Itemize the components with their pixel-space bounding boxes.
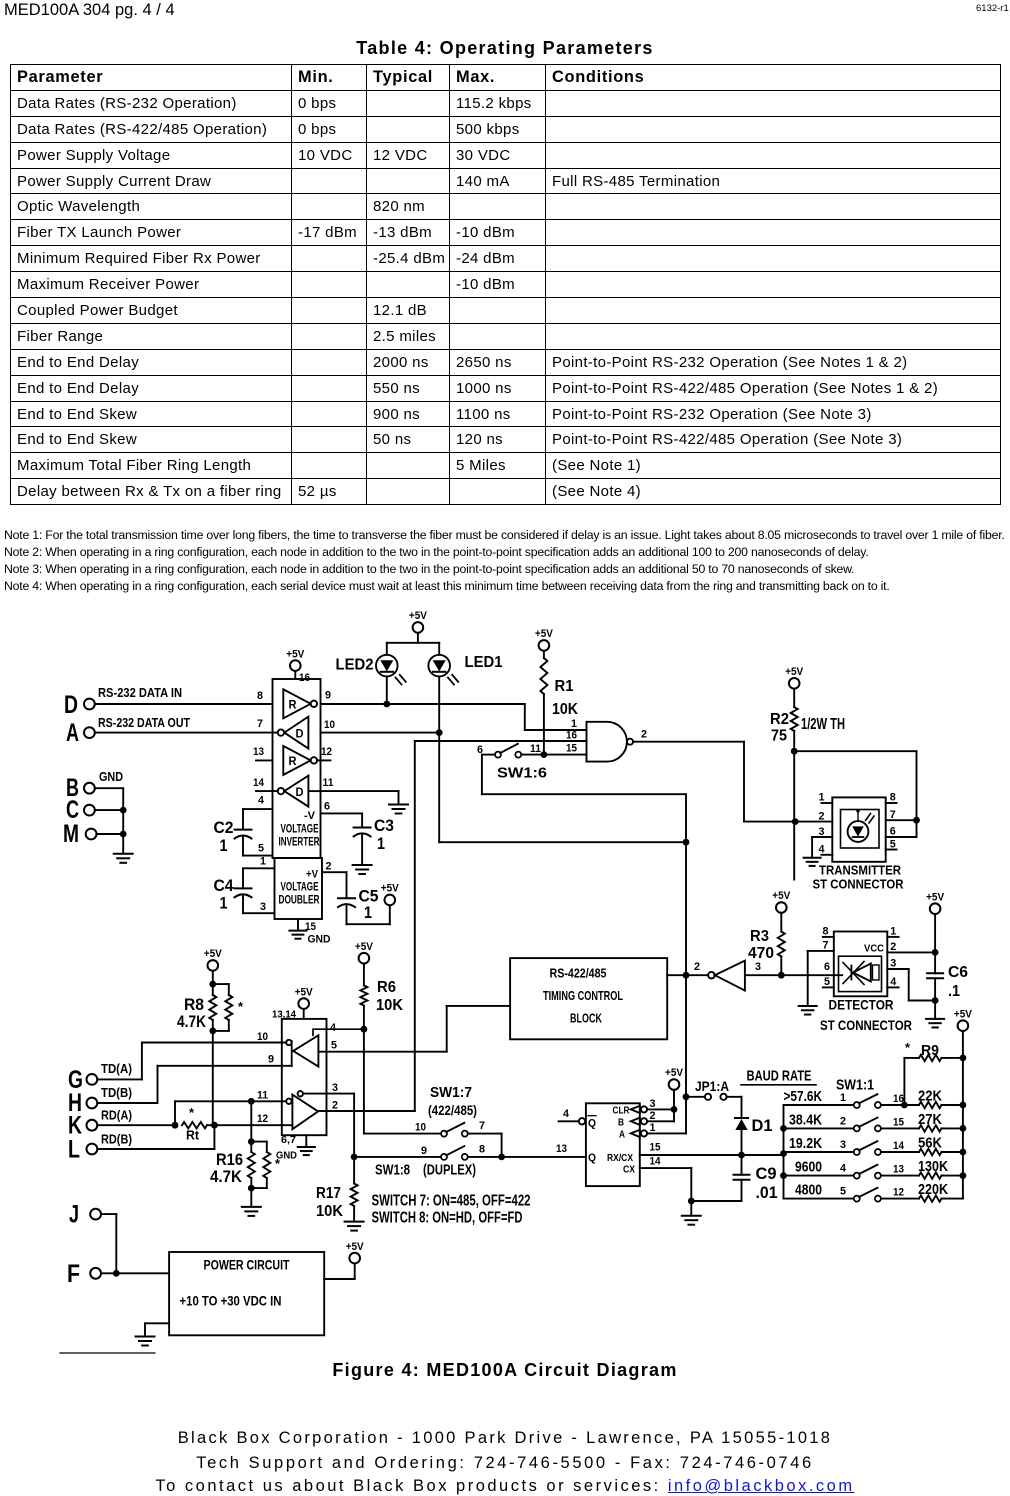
wire +5V to LED1/LED2	[417, 633, 419, 643]
svg-text:+5V: +5V	[381, 883, 400, 895]
transmitter inner package	[841, 810, 880, 849]
RS-422/485 timing control block	[510, 958, 667, 1039]
svg-text:2: 2	[840, 1115, 846, 1127]
resistor R8 pair	[208, 960, 219, 971]
svg-text:9: 9	[268, 1054, 274, 1066]
wire pin10 line	[321, 732, 440, 734]
diode D1	[735, 1117, 748, 1119]
svg-text:RS-232 DATA IN: RS-232 DATA IN	[98, 685, 182, 700]
svg-text:38.4K: 38.4K	[789, 1111, 822, 1128]
svg-text:10: 10	[257, 1031, 268, 1043]
wire LED1 down	[438, 676, 440, 732]
svg-text:SW1:7: SW1:7	[430, 1084, 472, 1101]
svg-text:6: 6	[890, 826, 896, 838]
svg-text:1: 1	[220, 894, 228, 913]
switch SW1 row 3 (19.2K)	[784, 1151, 854, 1153]
detector pin stubs	[823, 936, 834, 938]
svg-text:4.7K: 4.7K	[210, 1167, 243, 1186]
svg-text:2: 2	[332, 1100, 338, 1112]
svg-text:+5V: +5V	[346, 1241, 365, 1253]
svg-text:9600: 9600	[795, 1159, 822, 1176]
wire A to pin 7	[95, 732, 278, 734]
svg-text:1: 1	[364, 903, 372, 922]
wire pin 4	[313, 1029, 364, 1035]
LED2	[376, 655, 398, 677]
svg-text:RS-232 DATA OUT: RS-232 DATA OUT	[98, 715, 190, 730]
svg-text:DOUBLER: DOUBLER	[279, 893, 320, 907]
svg-text:2: 2	[890, 941, 896, 953]
svg-text:8: 8	[479, 1144, 485, 1156]
svg-text:3: 3	[755, 961, 761, 973]
left bus	[783, 1105, 785, 1199]
svg-text:10K: 10K	[376, 997, 403, 1014]
svg-text:SWITCH 7: ON=485, OFF=422: SWITCH 7: ON=485, OFF=422	[372, 1193, 531, 1210]
switch SW1 row 2 (38.4K)	[784, 1127, 854, 1129]
detector inner package	[839, 956, 882, 991]
svg-text:J: J	[69, 1201, 79, 1229]
wire node X down to inverter input	[685, 842, 687, 975]
+5V at FF	[669, 1079, 680, 1090]
svg-text:R6: R6	[377, 979, 396, 996]
+5V supply above LEDs	[413, 622, 424, 633]
svg-text:15: 15	[893, 1116, 904, 1128]
svg-text:3: 3	[840, 1139, 846, 1151]
wire NAND output	[633, 741, 744, 743]
svg-text:VOLTAGE: VOLTAGE	[281, 822, 319, 836]
svg-text:RX/CX: RX/CX	[607, 1152, 633, 1164]
wire K node up to pin 11	[174, 1101, 176, 1125]
resistor R3	[776, 902, 787, 913]
resistor 27K	[919, 1125, 942, 1131]
svg-text:C2: C2	[214, 818, 234, 837]
svg-text:B: B	[618, 1117, 624, 1129]
wire M	[97, 833, 124, 835]
svg-text:R1: R1	[555, 678, 574, 695]
svg-text:16: 16	[299, 672, 310, 684]
svg-text:JP1:A: JP1:A	[695, 1078, 729, 1094]
transmitter ST connector outer box	[832, 797, 885, 861]
svg-text:(DUPLEX): (DUPLEX)	[423, 1162, 476, 1179]
resistor R1	[539, 640, 550, 651]
svg-text:POWER CIRCUIT: POWER CIRCUIT	[204, 1258, 291, 1273]
buffer R (pins 8/9)	[283, 689, 310, 718]
svg-text:>57.6K: >57.6K	[784, 1088, 823, 1105]
svg-text:Rt: Rt	[186, 1128, 200, 1143]
wire pin9 line to NAND input 1	[321, 703, 525, 705]
svg-text:4: 4	[819, 844, 826, 856]
capacitor C5	[338, 897, 355, 899]
svg-text:Q: Q	[588, 1152, 596, 1164]
svg-text:6,7: 6,7	[281, 1134, 296, 1146]
NAND gate	[587, 722, 627, 762]
svg-text:SW1:6: SW1:6	[497, 765, 547, 782]
svg-text:ST CONNECTOR: ST CONNECTOR	[813, 877, 905, 892]
svg-text:DETECTOR: DETECTOR	[829, 997, 894, 1013]
svg-text:C9: C9	[756, 1164, 777, 1183]
FF CLR input wedge	[631, 1106, 640, 1113]
svg-text:D1: D1	[752, 1116, 773, 1135]
svg-text:7: 7	[823, 940, 829, 952]
svg-text:+5V: +5V	[954, 1008, 973, 1020]
svg-text:D: D	[64, 691, 78, 719]
svg-text:1: 1	[571, 718, 577, 730]
svg-text:14: 14	[893, 1140, 905, 1152]
svg-text:RD(B): RD(B)	[101, 1132, 132, 1147]
box bottom ground 6,7	[305, 1135, 307, 1147]
scan artifact line	[60, 1352, 155, 1354]
svg-text:TRANSMITTER: TRANSMITTER	[819, 863, 902, 878]
svg-text:TD(B): TD(B)	[101, 1085, 132, 1100]
svg-text:+5V: +5V	[772, 890, 791, 902]
receiver buffer	[293, 1035, 318, 1066]
svg-text:LED2: LED2	[336, 657, 374, 674]
wire pin 11 to ground	[308, 790, 320, 792]
LED1	[428, 655, 450, 677]
wire CX to ground	[640, 1167, 692, 1169]
svg-text:2: 2	[819, 811, 825, 823]
switch SW1 row 1 (>57.6K)	[784, 1104, 854, 1106]
svg-text:19.2K: 19.2K	[789, 1135, 822, 1152]
svg-text:1: 1	[220, 836, 228, 855]
svg-text:3: 3	[890, 958, 896, 970]
svg-text:2: 2	[694, 961, 700, 973]
svg-text:Q: Q	[588, 1118, 596, 1130]
svg-text:3: 3	[819, 826, 825, 838]
svg-text:R: R	[289, 700, 298, 712]
svg-text:8: 8	[257, 690, 263, 702]
svg-text:4: 4	[330, 1022, 337, 1034]
inverter buffer	[708, 972, 715, 979]
svg-text:15: 15	[566, 743, 577, 755]
svg-text:1: 1	[650, 1122, 656, 1134]
svg-text:CX: CX	[623, 1164, 635, 1176]
ground pin 11	[389, 804, 408, 806]
svg-text:D: D	[296, 787, 304, 799]
svg-text:R: R	[289, 756, 298, 768]
svg-text:5: 5	[824, 976, 830, 988]
switch SW1 row 5 (4800)	[784, 1198, 854, 1200]
svg-text:+5V: +5V	[295, 986, 314, 998]
svg-text:75: 75	[771, 728, 787, 745]
svg-text:13,14: 13,14	[272, 1009, 296, 1021]
svg-text:4: 4	[840, 1163, 847, 1175]
svg-text:GND: GND	[99, 769, 123, 784]
svg-text:8: 8	[890, 792, 896, 804]
svg-text:VOLTAGE: VOLTAGE	[281, 880, 319, 894]
resistor 130K	[919, 1172, 942, 1178]
svg-text:3: 3	[650, 1098, 656, 1110]
wire pin 5	[318, 1051, 446, 1053]
buffer D (pins 14/11)	[284, 776, 308, 807]
svg-text:1/2W TH: 1/2W TH	[801, 716, 845, 733]
svg-text:27K: 27K	[918, 1111, 942, 1128]
svg-text:4: 4	[890, 976, 897, 988]
resistor 220K	[919, 1195, 942, 1201]
resistor 56K	[919, 1149, 942, 1155]
svg-text:+5V: +5V	[665, 1067, 684, 1079]
resistor R2	[789, 678, 800, 689]
svg-text:8: 8	[823, 926, 829, 938]
svg-text:SW1:8: SW1:8	[375, 1162, 410, 1179]
svg-text:1: 1	[819, 792, 825, 804]
svg-text:3: 3	[332, 1082, 338, 1094]
svg-text:(422/485): (422/485)	[428, 1103, 477, 1118]
svg-text:12: 12	[321, 746, 332, 758]
svg-text:+5V: +5V	[785, 666, 804, 678]
svg-text:13: 13	[253, 746, 264, 758]
svg-text:5: 5	[890, 838, 896, 850]
svg-text:R2: R2	[770, 711, 789, 728]
svg-text:5: 5	[258, 843, 264, 855]
wire Rt to pin 12	[214, 1124, 292, 1126]
wire B	[95, 787, 123, 789]
svg-text:9: 9	[421, 1145, 427, 1157]
wire SW1:6 right to NAND input 15	[521, 754, 586, 756]
svg-text:14: 14	[650, 1156, 662, 1168]
wire inverter to detector	[745, 974, 842, 976]
svg-text:C4: C4	[214, 876, 234, 895]
svg-text:7: 7	[890, 809, 896, 821]
svg-text:RD(A): RD(A)	[101, 1108, 132, 1123]
svg-text:LED1: LED1	[465, 654, 503, 671]
svg-text:*: *	[189, 1105, 195, 1120]
IC U1 voltage doubler box	[275, 858, 323, 919]
svg-text:TD(A): TD(A)	[101, 1061, 132, 1076]
wire D to pin 8	[95, 703, 273, 705]
svg-text:12: 12	[893, 1187, 904, 1199]
svg-text:3: 3	[260, 901, 266, 913]
svg-text:1: 1	[890, 926, 896, 938]
resistor 22K	[919, 1102, 942, 1108]
svg-text:*: *	[238, 999, 244, 1014]
svg-text:A: A	[66, 719, 79, 747]
svg-text:10: 10	[324, 719, 335, 731]
svg-text:RS-422/485: RS-422/485	[550, 967, 607, 981]
power circuit ground	[145, 1322, 169, 1324]
switch SW1 row 4 (9600)	[784, 1175, 854, 1177]
svg-text:10: 10	[415, 1122, 426, 1134]
detector ST connector outer box	[834, 932, 888, 997]
svg-text:+5V: +5V	[409, 610, 428, 622]
svg-text:F: F	[67, 1260, 80, 1288]
svg-text:2: 2	[641, 729, 647, 741]
driver buffer	[292, 1095, 318, 1130]
svg-text:M: M	[63, 820, 79, 848]
svg-text:A: A	[619, 1129, 625, 1141]
wire FF pin A	[647, 1132, 686, 1134]
svg-text:6: 6	[824, 961, 830, 973]
svg-text:12: 12	[257, 1113, 268, 1125]
+5V at transceiver	[298, 998, 309, 1009]
IC U1 RS-232 transceiver: voltage inverter box	[273, 679, 321, 858]
svg-text:16: 16	[566, 730, 577, 742]
wire C	[95, 809, 123, 811]
svg-text:.01: .01	[756, 1183, 778, 1202]
svg-text:+5V: +5V	[535, 628, 554, 640]
svg-text:56K: 56K	[918, 1135, 942, 1152]
svg-text:13: 13	[893, 1164, 904, 1176]
svg-text:SWITCH 8: ON=HD, OFF=FD: SWITCH 8: ON=HD, OFF=FD	[372, 1210, 523, 1227]
capacitor C9	[741, 1155, 743, 1175]
svg-text:1: 1	[840, 1092, 846, 1104]
svg-text:4.7K: 4.7K	[177, 1012, 207, 1031]
svg-text:CLR: CLR	[613, 1105, 630, 1117]
svg-text:+5V: +5V	[926, 891, 945, 903]
svg-text:2: 2	[650, 1110, 656, 1122]
power circuit block	[169, 1252, 324, 1335]
svg-text:D: D	[296, 728, 304, 740]
pin 15 / GND stub	[297, 919, 299, 931]
svg-text:R9: R9	[921, 1042, 939, 1059]
wire R8 down	[212, 1031, 214, 1125]
svg-text:4: 4	[563, 1108, 570, 1120]
svg-text:L: L	[68, 1136, 80, 1164]
svg-text:SW1:1: SW1:1	[836, 1077, 874, 1094]
svg-text:ST CONNECTOR: ST CONNECTOR	[820, 1017, 912, 1033]
wire R2 node to pin7	[794, 750, 916, 752]
svg-text:+5V: +5V	[286, 648, 305, 660]
wire SW1:6 left leg	[482, 754, 495, 756]
svg-text:R17: R17	[316, 1185, 341, 1202]
wire R6 node down to SW1:7	[363, 1029, 365, 1133]
svg-text:11: 11	[323, 777, 334, 789]
buffer R (pins 13/12)	[283, 746, 310, 775]
svg-text:BLOCK: BLOCK	[570, 1012, 602, 1026]
svg-text:7: 7	[257, 718, 263, 730]
+5V supply at IC pin 16	[290, 660, 301, 671]
resistor R16 pair	[250, 1101, 252, 1141]
+5V at C5	[385, 895, 396, 906]
svg-text:-V: -V	[304, 810, 316, 822]
pin 12 stub	[317, 759, 330, 761]
+5V right bus	[958, 1020, 969, 1031]
wire driver pin 3	[303, 1093, 354, 1095]
wire LED1 node down to node X	[438, 733, 440, 843]
wire LED2 to R line	[386, 676, 388, 704]
svg-text:22K: 22K	[918, 1088, 942, 1105]
svg-text:4800: 4800	[795, 1182, 822, 1199]
RS-422/485 transceiver box	[282, 1019, 327, 1135]
svg-text:10K: 10K	[316, 1203, 343, 1220]
svg-text:VCC: VCC	[864, 943, 884, 955]
svg-text:2: 2	[326, 861, 332, 873]
svg-text:130K: 130K	[918, 1158, 948, 1175]
svg-text:470: 470	[748, 945, 774, 962]
wire B/C/M ground bus	[122, 788, 124, 854]
flip-flop U3	[586, 1103, 640, 1186]
resistor Rt	[182, 1122, 207, 1128]
svg-text:4: 4	[258, 795, 265, 807]
ground C3	[353, 864, 372, 866]
transmitter LED	[848, 821, 869, 842]
wire RX/CX line	[640, 1154, 784, 1156]
wire block output	[667, 974, 708, 976]
svg-text:13: 13	[556, 1143, 567, 1155]
svg-text:14: 14	[253, 777, 265, 789]
svg-text:6: 6	[324, 801, 330, 813]
detector photodiode	[853, 964, 871, 982]
svg-text:220K: 220K	[918, 1181, 948, 1198]
svg-text:11: 11	[530, 743, 541, 755]
resistor R17	[351, 1184, 358, 1207]
wire NAND input 16 from driver pin2	[415, 740, 587, 742]
wire node X down to JP1	[685, 975, 687, 1097]
svg-text:7: 7	[479, 1120, 485, 1132]
svg-text:R3: R3	[750, 928, 769, 945]
svg-text:*: *	[905, 1040, 911, 1055]
svg-text:GND: GND	[308, 934, 331, 946]
svg-text:10K: 10K	[552, 701, 578, 718]
buffer D (pins 7/10)	[284, 717, 308, 749]
svg-text:1: 1	[377, 834, 385, 853]
power circuit +5V output	[324, 1278, 355, 1280]
svg-text:TIMING CONTROL: TIMING CONTROL	[543, 989, 623, 1003]
svg-text:BAUD RATE: BAUD RATE	[747, 1069, 812, 1085]
svg-text:C6: C6	[948, 964, 968, 981]
svg-text:11: 11	[257, 1090, 268, 1102]
resistor R6	[359, 953, 370, 964]
svg-text:1: 1	[260, 856, 266, 868]
svg-text:5: 5	[331, 1040, 337, 1052]
svg-text:C3: C3	[374, 816, 394, 835]
svg-text:+10 TO +30 VDC IN: +10 TO +30 VDC IN	[180, 1294, 282, 1309]
resistor R9	[903, 1058, 905, 1105]
svg-text:.1: .1	[948, 983, 960, 1000]
svg-text:9: 9	[325, 690, 331, 702]
ground B/C/M	[114, 853, 133, 855]
capacitor C6	[930, 903, 941, 914]
svg-text:+5V: +5V	[204, 948, 223, 960]
svg-text:INVERTER: INVERTER	[279, 835, 320, 849]
transmitter pin stubs	[821, 802, 832, 804]
svg-text:5: 5	[840, 1186, 846, 1198]
pin 13 stub	[256, 759, 273, 761]
svg-text:+5V: +5V	[355, 941, 374, 953]
svg-text:15: 15	[650, 1142, 661, 1154]
capacitor C3	[354, 827, 371, 829]
